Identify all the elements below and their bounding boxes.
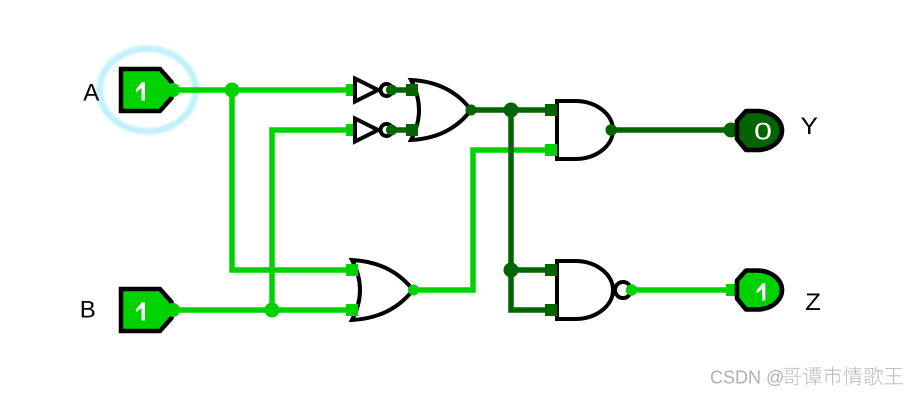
wire A branch down to OR2 top input — [232, 90, 352, 270]
wire AND output to pin Y — [611, 127, 731, 133]
input pin A — [121, 69, 180, 111]
or-gate OR1 — [406, 80, 477, 140]
wire OR2 output to AND gate lower input — [414, 150, 551, 290]
value label of pin Z — [757, 283, 766, 301]
or-gate OR2 — [346, 260, 419, 320]
svg-text:Y: Y — [801, 113, 819, 140]
output pin Z — [726, 271, 782, 310]
wire OR1 output to AND gate top input — [468, 107, 551, 113]
wire inverter U1 output to OR1 top input — [391, 87, 412, 93]
junction node NAND input net — [504, 263, 519, 278]
value label of pin B — [136, 302, 145, 321]
wire NAND output to pin Z — [631, 287, 731, 293]
wire inverter U2 output to OR1 bottom input — [391, 127, 412, 133]
wire node down to NAND bottom input — [511, 270, 551, 310]
halo around input A — [100, 49, 196, 132]
nand-gate U4 — [545, 261, 637, 319]
junction node on wire A — [225, 83, 240, 98]
inverter U2 — [346, 119, 397, 142]
junction node on wire B — [265, 303, 280, 318]
inverter U1 — [346, 79, 397, 102]
junction node OR1 output net — [504, 103, 519, 118]
svg-text:0: 0 — [754, 119, 772, 146]
wire branch down from node at (511,110) — [508, 110, 514, 270]
svg-text:B: B — [80, 297, 96, 324]
wire B output to OR2 bottom input — [173, 307, 352, 313]
wire A output to inverter U1 input — [174, 87, 352, 93]
and-gate U3 — [545, 101, 617, 159]
watermark chinese username — [783, 367, 903, 386]
svg-text:CSDN @: CSDN @ — [710, 368, 784, 388]
input pin B — [121, 289, 180, 331]
output pin Y — [724, 111, 783, 150]
wire node to NAND top input — [511, 267, 551, 273]
svg-text:Z: Z — [805, 289, 821, 316]
wire B branch up to inverter U2 input — [272, 130, 352, 310]
svg-text:A: A — [83, 80, 99, 107]
value label of pin A — [136, 82, 145, 101]
